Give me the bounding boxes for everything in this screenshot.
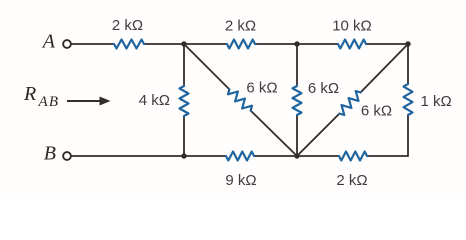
svg-text:1 kΩ: 1 kΩ (421, 93, 452, 110)
arrow RAB (67, 97, 111, 106)
wire diagonal node F to R7 (297, 114, 339, 156)
wire R7 to node E (361, 44, 408, 92)
terminal A (63, 40, 71, 48)
svg-text:10 kΩ: 10 kΩ (332, 18, 372, 35)
terminal B (63, 152, 71, 160)
svg-text:6 kΩ: 6 kΩ (246, 80, 277, 97)
wire R10 to right corner (367, 155, 408, 157)
wire node E down to R8 (407, 44, 409, 84)
wire R1 to node C (144, 43, 227, 45)
node junction D (294, 41, 299, 46)
wire top rail A to R1 (72, 43, 115, 45)
resistor R3 10 kOhm top right (338, 40, 366, 49)
node junction C (181, 41, 186, 46)
svg-text:R: R (23, 83, 36, 105)
svg-text:AB: AB (38, 94, 60, 110)
svg-text:6 kΩ: 6 kΩ (308, 80, 339, 97)
svg-text:2 kΩ: 2 kΩ (112, 17, 143, 34)
wire R3 to node E (366, 43, 408, 45)
resistor R4 4 kOhm vertical left (180, 86, 189, 116)
svg-text:A: A (41, 31, 56, 53)
wire R2 to node D (255, 43, 338, 45)
svg-text:9 kΩ: 9 kΩ (225, 172, 256, 189)
resistor R6 6 kOhm vertical middle (293, 86, 302, 115)
wire R9 to node F (254, 155, 339, 157)
svg-text:2 kΩ: 2 kΩ (225, 18, 256, 35)
wire R4 down to bottom rail (183, 116, 185, 156)
wire diagonal node C to R5 (184, 44, 229, 89)
node junction E (405, 41, 410, 46)
wire bottom rail B to R9 (72, 155, 227, 157)
svg-text:4 kΩ: 4 kΩ (139, 92, 170, 109)
resistor R7 6 kOhm diagonal right (339, 91, 360, 115)
resistor R9 9 kOhm bottom (226, 152, 254, 161)
resistor R2 2 kOhm top middle (227, 40, 255, 49)
node junction F (294, 153, 299, 158)
resistor R10 2 kOhm bottom right (339, 152, 367, 161)
resistor R1 2 kOhm top left (114, 40, 144, 49)
svg-text:B: B (44, 143, 56, 165)
svg-text:2 kΩ: 2 kΩ (336, 172, 367, 189)
wire R5 to node F (251, 111, 297, 156)
wire R8 down to bottom rail corner (407, 115, 409, 156)
node junction bottom left (181, 153, 186, 158)
wire node D down to R6 (296, 44, 298, 86)
resistor R8 1 kOhm vertical right (404, 84, 413, 115)
wire node C down to R4 (183, 44, 185, 86)
resistor R5 6 kOhm diagonal left (228, 89, 252, 110)
svg-text:6 kΩ: 6 kΩ (361, 103, 392, 120)
wire R6 down to node F (296, 115, 298, 156)
